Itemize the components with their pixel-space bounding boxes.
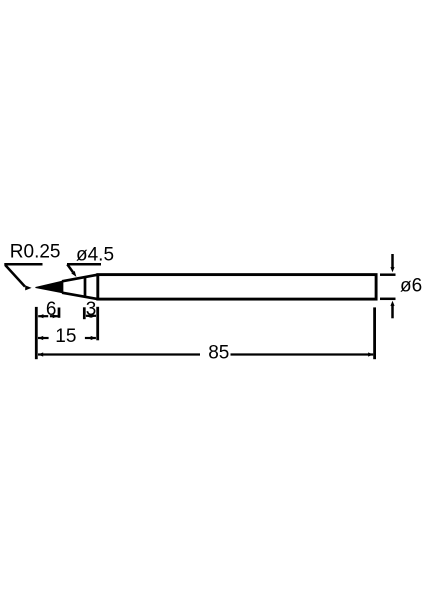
svg-text:85: 85 bbox=[208, 343, 229, 364]
svg-text:R0.25: R0.25 bbox=[10, 242, 61, 263]
svg-text:6: 6 bbox=[46, 299, 57, 320]
svg-text:ø4.5: ø4.5 bbox=[76, 245, 114, 266]
svg-text:3: 3 bbox=[86, 299, 97, 320]
svg-text:15: 15 bbox=[55, 326, 76, 347]
svg-text:ø6: ø6 bbox=[400, 276, 422, 297]
